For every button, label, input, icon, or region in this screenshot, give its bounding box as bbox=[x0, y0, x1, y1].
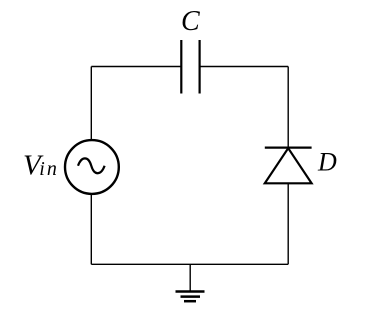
ground bbox=[176, 264, 205, 301]
wire left vertical upper bbox=[90, 67, 92, 140]
diode D bbox=[265, 148, 312, 184]
svg-text:D: D bbox=[317, 148, 337, 177]
wire right vertical upper bbox=[287, 67, 289, 148]
voltage source Vin (AC) bbox=[65, 140, 119, 194]
svg-text:C: C bbox=[181, 6, 200, 37]
wire bottom bbox=[91, 263, 288, 265]
capacitor C bbox=[181, 40, 199, 94]
wire top-right (node between C and D cathode) bbox=[200, 66, 288, 68]
wire right vertical lower bbox=[287, 183, 289, 264]
wire left vertical lower bbox=[90, 195, 92, 264]
svg-text:in: in bbox=[39, 158, 59, 180]
wire top-left (node between Vin and C) bbox=[91, 66, 181, 68]
